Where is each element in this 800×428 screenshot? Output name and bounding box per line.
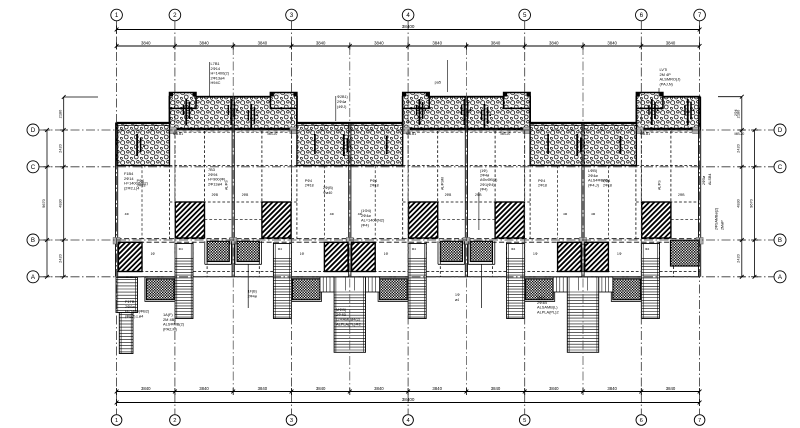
svg-text:3840: 3840: [141, 386, 151, 391]
svg-text:3840: 3840: [199, 40, 209, 45]
svg-text:1: 1: [115, 418, 118, 424]
svg-text:ALΦSM: ALΦSM: [441, 177, 445, 190]
svg-text:MB.B1: MB.B1: [640, 132, 650, 136]
svg-text:4Φ: 4Φ: [330, 212, 335, 216]
svg-text:4830: 4830: [736, 198, 741, 207]
svg-text:2Φ1(Φ4): 2Φ1(Φ4): [480, 183, 495, 187]
svg-text:■: ■: [469, 108, 471, 112]
svg-text:MB.20: MB.20: [735, 132, 745, 136]
svg-text:6: 6: [640, 12, 644, 19]
svg-text:2ΦB: 2ΦB: [212, 193, 218, 197]
svg-text:1: 1: [115, 12, 119, 19]
svg-text:9670: 9670: [41, 198, 46, 207]
svg-text:5: 5: [523, 12, 527, 19]
svg-text:2ΦB: 2ΦB: [678, 193, 684, 197]
svg-text:2180: 2180: [58, 109, 63, 118]
svg-text:ALSB4: ALSB4: [708, 174, 712, 185]
svg-text:38400: 38400: [402, 397, 415, 402]
svg-text:2420: 2420: [58, 253, 63, 262]
svg-text:(4ΦJ): (4ΦJ): [337, 105, 346, 109]
svg-text:2ΦSAMBø(2): 2ΦSAMBø(2): [715, 208, 719, 230]
svg-text:Φ4: Φ4: [511, 247, 515, 251]
svg-text:2420: 2420: [58, 143, 63, 152]
svg-text:(2Φ2,L)4: (2Φ2,L)4: [124, 185, 140, 190]
svg-text:MB.20: MB.20: [501, 132, 511, 136]
svg-text:4: 4: [406, 12, 410, 19]
svg-text:Φ4: Φ4: [278, 247, 282, 251]
svg-text:■: ■: [489, 113, 491, 117]
svg-text:2ΦB: 2ΦB: [242, 193, 248, 197]
svg-text:3840: 3840: [549, 386, 559, 391]
svg-text:4Φ: 4Φ: [563, 212, 568, 216]
svg-text:3840: 3840: [316, 40, 326, 45]
svg-text:pa5: pa5: [435, 81, 441, 85]
svg-text:9670: 9670: [748, 198, 753, 207]
svg-text:1F(B): 1F(B): [248, 290, 257, 294]
svg-text:3840: 3840: [432, 40, 442, 45]
svg-text:ALPLA(PL)Φ2: ALPLA(PL)Φ2: [336, 321, 361, 326]
svg-text:3840: 3840: [258, 386, 268, 391]
svg-text:ALPLA(PL)2: ALPLA(PL)2: [537, 309, 559, 314]
svg-text:D: D: [31, 127, 36, 134]
svg-text:■: ■: [424, 108, 426, 112]
svg-text:■: ■: [256, 113, 258, 117]
svg-text:ALΦS: ALΦS: [225, 180, 229, 190]
svg-text:3840: 3840: [199, 386, 209, 391]
svg-text:H94C: H94C: [211, 80, 221, 85]
svg-text:Φ2B1): Φ2B1): [337, 95, 348, 99]
svg-text:3840: 3840: [374, 386, 384, 391]
svg-text:3840: 3840: [666, 40, 676, 45]
svg-text:(Φ4,J): (Φ4,J): [588, 182, 600, 187]
svg-text:1Φ: 1Φ: [617, 252, 622, 256]
svg-text:1Φ: 1Φ: [533, 252, 538, 256]
svg-text:4Φ: 4Φ: [125, 212, 130, 216]
svg-text:Φ4: Φ4: [412, 247, 416, 251]
svg-text:3840: 3840: [374, 40, 384, 45]
svg-text:2Φ18: 2Φ18: [305, 184, 314, 188]
svg-text:2420: 2420: [736, 143, 741, 152]
svg-text:3840: 3840: [549, 40, 559, 45]
svg-text:7: 7: [698, 418, 701, 424]
svg-text:3840: 3840: [666, 386, 676, 391]
svg-text:■: ■: [143, 144, 145, 148]
svg-text:MB.B1: MB.B1: [406, 132, 416, 136]
svg-text:4Φ: 4Φ: [591, 212, 596, 216]
svg-text:2Φ18: 2Φ18: [370, 184, 379, 188]
svg-text:2Φ18: 2Φ18: [603, 184, 612, 188]
svg-text:1Φ: 1Φ: [455, 293, 460, 297]
svg-text:(PA2,M): (PA2,M): [163, 326, 178, 331]
svg-text:ALΦS: ALΦS: [658, 180, 662, 190]
svg-text:Φ4: Φ4: [179, 247, 183, 251]
svg-text:PΦ4: PΦ4: [305, 179, 312, 183]
svg-text:38400: 38400: [402, 24, 415, 29]
svg-text:(1Φ): (1Φ): [480, 169, 487, 173]
svg-text:(Φ4): (Φ4): [361, 222, 370, 227]
svg-text:■: ■: [693, 108, 695, 112]
svg-text:MB.20: MB.20: [268, 132, 278, 136]
svg-text:3: 3: [290, 418, 293, 424]
svg-text:PΦ4: PΦ4: [538, 179, 545, 183]
svg-text:7: 7: [698, 12, 702, 19]
svg-text:6: 6: [640, 418, 643, 424]
svg-text:■: ■: [657, 108, 659, 112]
svg-text:■: ■: [191, 108, 193, 112]
svg-text:3840: 3840: [141, 40, 151, 45]
svg-text:B: B: [778, 237, 782, 244]
svg-text:3840: 3840: [607, 40, 617, 45]
svg-text:B: B: [31, 237, 35, 244]
svg-text:2Φ18: 2Φ18: [538, 184, 547, 188]
svg-text:2Φ(B): 2Φ(B): [323, 186, 333, 190]
svg-text:3840: 3840: [491, 40, 501, 45]
svg-text:(Φ4): (Φ4): [480, 187, 487, 191]
svg-text:2Φ13ø4: 2Φ13ø4: [208, 181, 223, 186]
svg-text:2Φ4: 2Φ4: [734, 109, 738, 116]
svg-text:Φø40: Φø40: [323, 191, 332, 195]
svg-text:2420: 2420: [736, 253, 741, 262]
svg-text:3840: 3840: [258, 40, 268, 45]
svg-text:3840: 3840: [316, 386, 326, 391]
svg-text:■: ■: [236, 108, 238, 112]
svg-text:2ΦB: 2ΦB: [445, 193, 451, 197]
svg-text:5: 5: [523, 418, 526, 424]
svg-text:AΦοΦB(2): AΦοΦB(2): [480, 178, 497, 182]
svg-text:2Φ5ø: 2Φ5ø: [702, 175, 706, 185]
svg-text:2: 2: [173, 418, 176, 424]
svg-text:4830: 4830: [58, 198, 63, 207]
svg-text:3840: 3840: [607, 386, 617, 391]
svg-text:3840: 3840: [432, 386, 442, 391]
svg-text:2Φ4ø: 2Φ4ø: [337, 100, 347, 104]
svg-text:1Φ: 1Φ: [384, 252, 389, 256]
svg-text:2Φ4ø: 2Φ4ø: [248, 294, 258, 298]
svg-text:ø4: ø4: [455, 298, 459, 302]
svg-text:1Φ: 1Φ: [300, 252, 305, 256]
svg-text:MB.B1: MB.B1: [173, 132, 183, 136]
svg-text:2MøP: 2MøP: [721, 220, 725, 230]
svg-text:PΦ4: PΦ4: [370, 179, 377, 183]
svg-text:3: 3: [290, 12, 294, 19]
svg-text:2Φ4ø: 2Φ4ø: [480, 174, 490, 178]
svg-text:(PAJ,N): (PAJ,N): [660, 81, 674, 86]
svg-text:2ΦB: 2ΦB: [475, 193, 481, 197]
svg-text:Φ4: Φ4: [645, 247, 649, 251]
svg-text:D: D: [778, 127, 783, 134]
svg-text:C: C: [778, 164, 783, 171]
svg-text:3840: 3840: [491, 386, 501, 391]
svg-text:C: C: [31, 164, 36, 171]
svg-text:(ΦB2),Lø4: (ΦB2),Lø4: [125, 313, 144, 318]
svg-text:2: 2: [173, 12, 177, 19]
svg-text:1Φ: 1Φ: [151, 252, 156, 256]
